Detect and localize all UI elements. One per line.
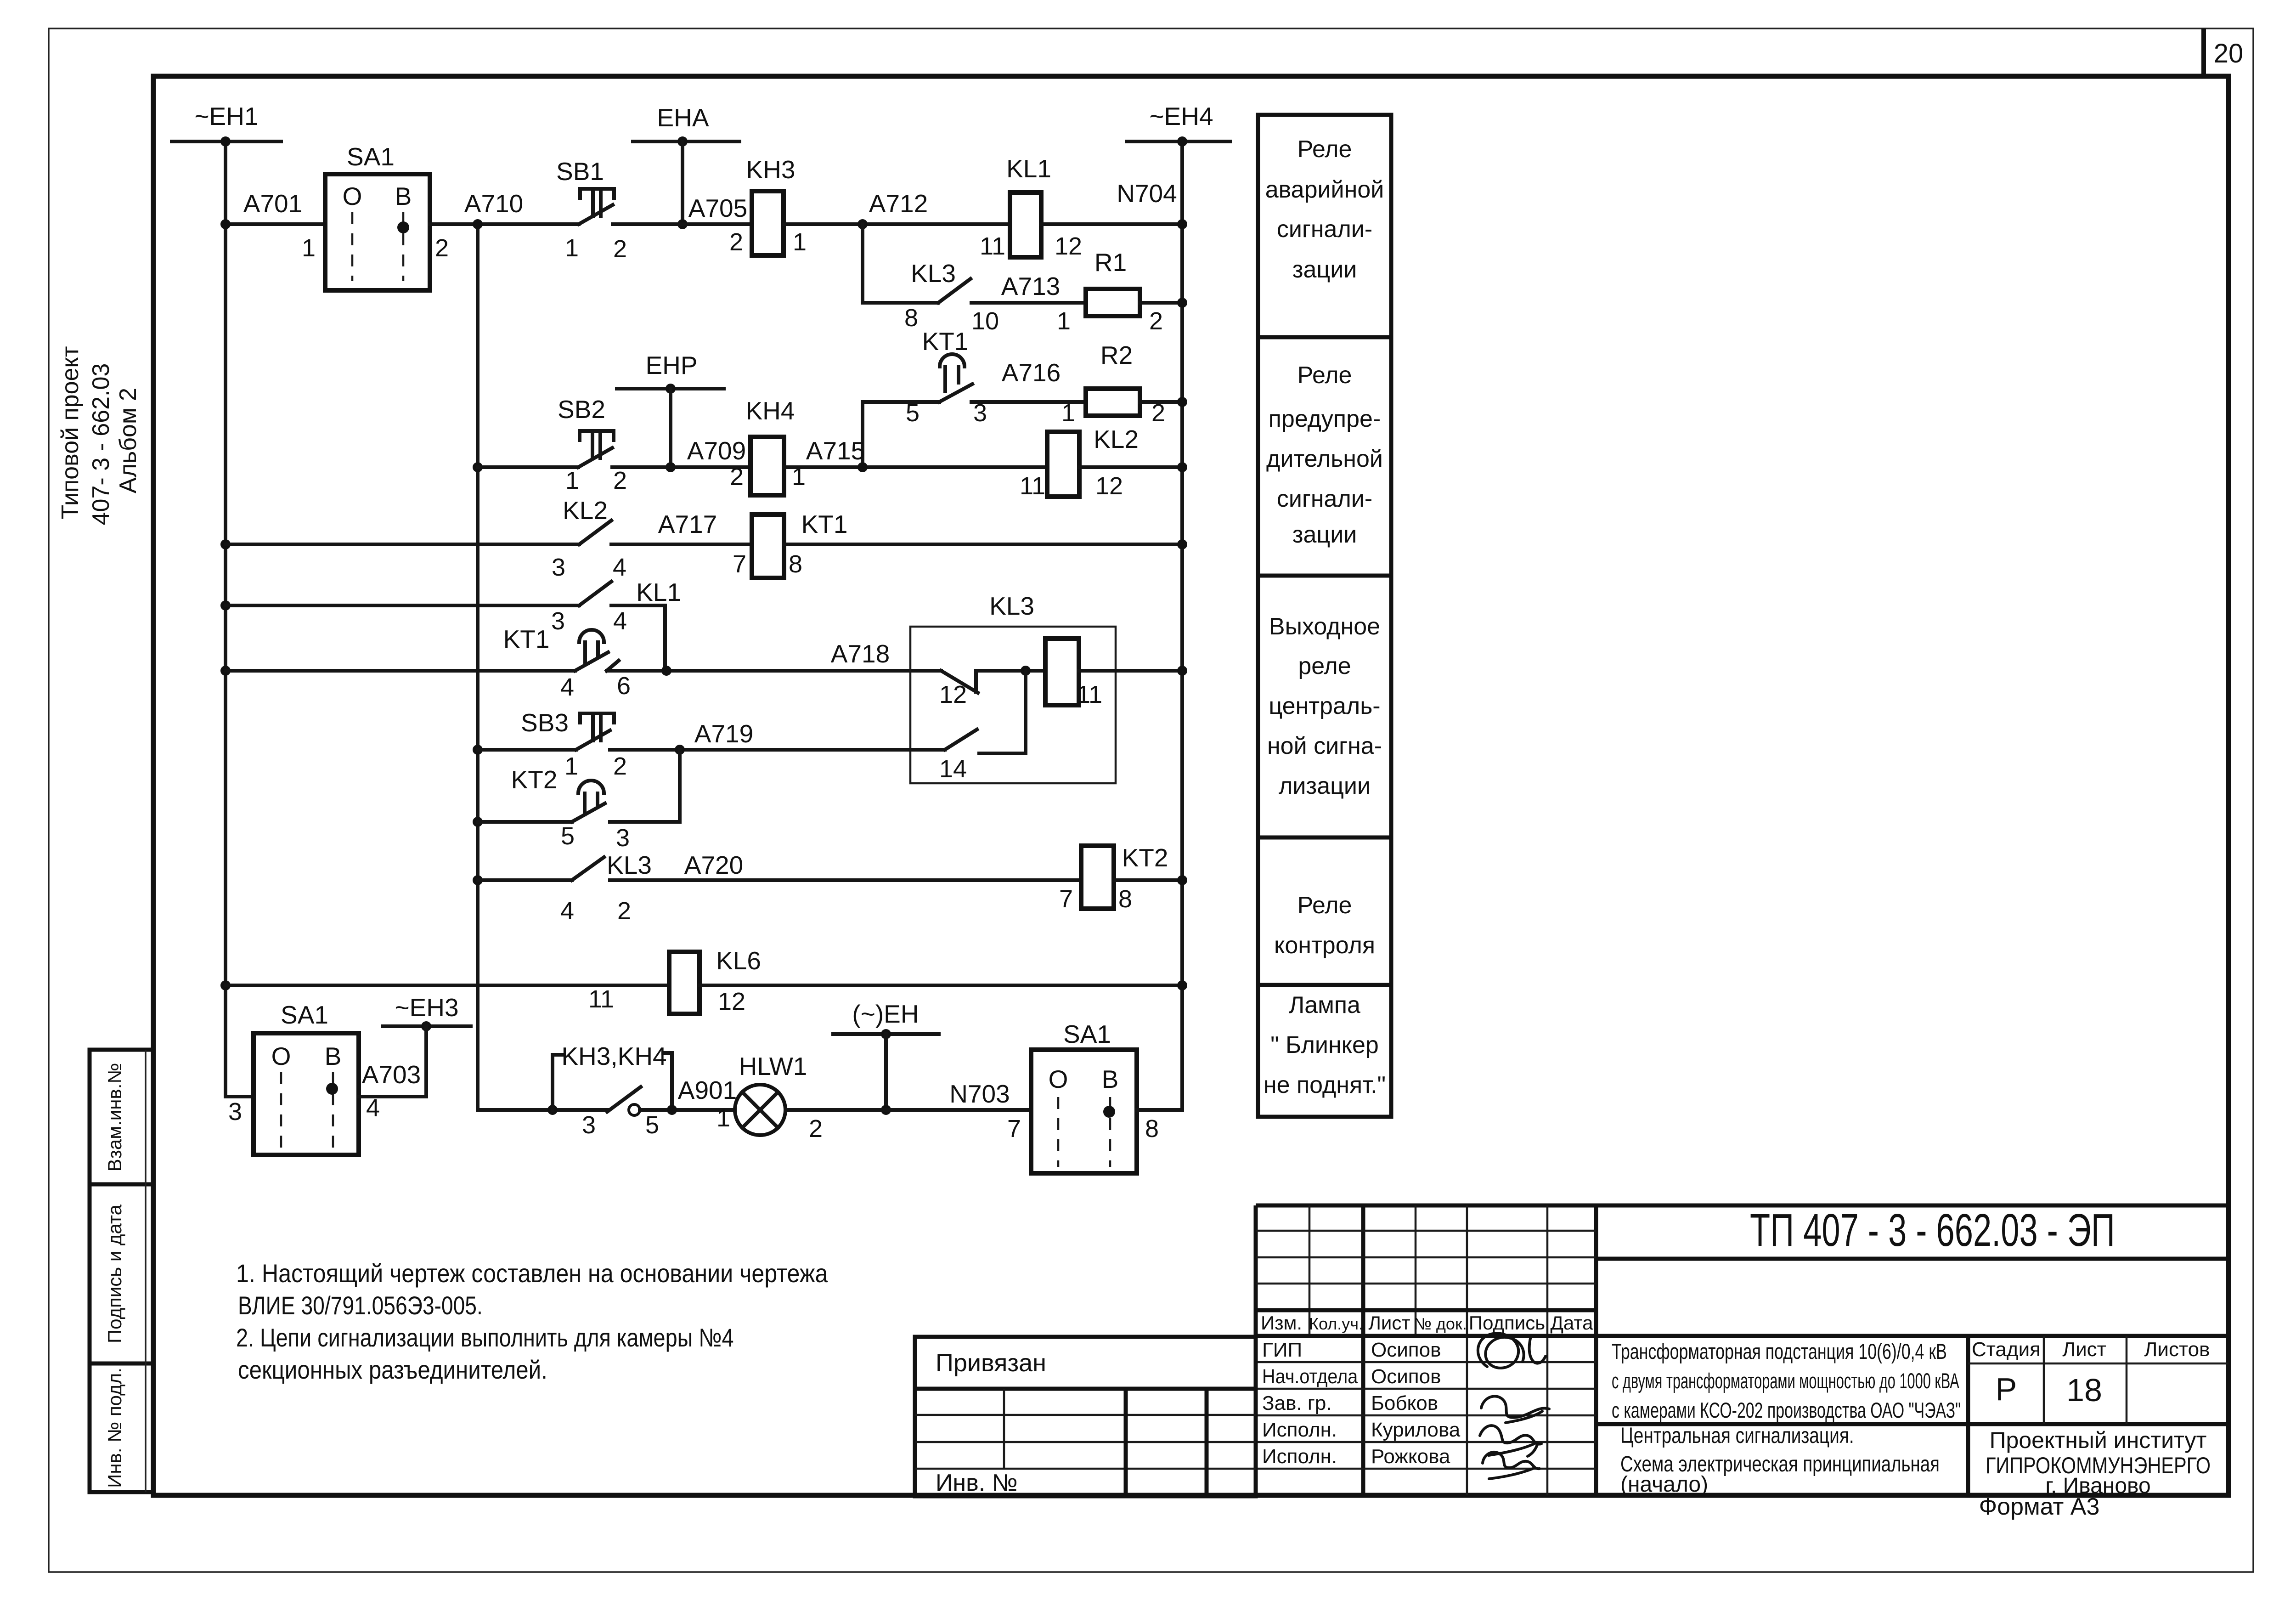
svg-text:1. Настоящий чертеж составлен: 1. Настоящий чертеж составлен на основан…	[236, 1260, 828, 1288]
wire right bus N	[1180, 141, 1184, 1110]
svg-text:11: 11	[1077, 681, 1102, 708]
wire A717	[611, 543, 752, 546]
wire row KL6	[220, 980, 231, 990]
svg-text:12: 12	[1055, 232, 1082, 260]
svg-text:Нач.отдела: Нач.отдела	[1262, 1365, 1358, 1387]
svg-text:с двумя трансформаторами мощно: с двумя трансформаторами мощностью до 10…	[1612, 1369, 1959, 1393]
svg-text:N704: N704	[1117, 179, 1177, 208]
wire N703	[785, 1108, 1031, 1112]
svg-text:№ док.: № док.	[1414, 1314, 1467, 1333]
title block stage cells	[1972, 1338, 2210, 1361]
relay contact KH4	[730, 396, 806, 495]
svg-text:11: 11	[980, 232, 1005, 260]
node ~EH4	[1127, 102, 1230, 147]
title block roles and names	[1262, 1339, 1461, 1468]
wire row SB2	[473, 462, 483, 472]
svg-text:EHA: EHA	[657, 103, 709, 132]
svg-text:О: О	[343, 182, 362, 210]
svg-text:4: 4	[560, 673, 574, 701]
svg-text:2. Цепи сигнализации выполнить: 2. Цепи сигнализации выполнить для камер…	[236, 1323, 734, 1352]
wire A703	[359, 1095, 426, 1098]
svg-text:8: 8	[789, 550, 802, 578]
svg-text:SB3: SB3	[521, 708, 569, 737]
wire lamp row from L2	[478, 1108, 607, 1112]
wire A720	[610, 878, 1081, 882]
svg-text:зации: зации	[1292, 521, 1357, 548]
relay coil KL6	[588, 946, 761, 1015]
svg-text:A703: A703	[362, 1060, 421, 1089]
svg-text:KL3: KL3	[911, 259, 956, 288]
wire A713	[971, 301, 1086, 305]
svg-text:20: 20	[2214, 39, 2244, 68]
svg-text:5: 5	[561, 822, 575, 850]
svg-text:2: 2	[729, 228, 743, 256]
svg-text:4: 4	[613, 554, 626, 581]
wire drop A712 to KL3 contact row	[861, 224, 864, 303]
wire A901	[640, 1108, 735, 1112]
svg-text:KT1: KT1	[801, 510, 848, 538]
svg-text:Стадия: Стадия	[1972, 1338, 2041, 1361]
svg-text:Рожкова: Рожкова	[1371, 1445, 1450, 1468]
node ~EH3	[383, 993, 471, 1097]
wire	[1079, 669, 1182, 673]
relay coil KT1	[733, 510, 847, 578]
switch SA1 bottom left	[228, 1001, 380, 1155]
svg-text:3: 3	[552, 554, 565, 581]
svg-text:(начало): (начало)	[1620, 1472, 1708, 1497]
svg-text:KH4: KH4	[746, 396, 795, 425]
svg-text:5: 5	[906, 399, 920, 427]
wire row A701	[226, 222, 325, 226]
svg-text:О: О	[271, 1042, 291, 1070]
wire	[784, 222, 1010, 226]
svg-text:A710: A710	[464, 189, 523, 218]
svg-text:ТП 407 - 3 - 662.03 - ЭП: ТП 407 - 3 - 662.03 - ЭП	[1750, 1205, 2115, 1256]
wire drop KL1 to KT1 row	[663, 605, 667, 671]
legend box 4 text	[1274, 892, 1375, 959]
svg-text:6: 6	[617, 672, 631, 700]
title block header labels	[1261, 1312, 1593, 1334]
svg-text:A709: A709	[687, 436, 746, 465]
wire	[611, 604, 665, 607]
svg-text:3: 3	[228, 1098, 242, 1126]
svg-text:~EH1: ~EH1	[194, 102, 258, 130]
svg-text:8: 8	[904, 304, 918, 332]
svg-text:Подпись и дата: Подпись и дата	[104, 1204, 125, 1343]
svg-text:~EH3: ~EH3	[395, 993, 458, 1022]
svg-text:SB2: SB2	[558, 395, 605, 424]
svg-text:KL1: KL1	[636, 578, 681, 606]
svg-text:HLW1: HLW1	[739, 1052, 807, 1080]
wire left bus L1	[224, 141, 227, 1097]
node A712	[857, 219, 868, 229]
svg-text:ной сигна-: ной сигна-	[1267, 733, 1382, 759]
wire inner drop to contact 14	[1024, 671, 1027, 753]
legend box 1 text	[1265, 136, 1384, 283]
svg-text:" Блинкер: " Блинкер	[1270, 1032, 1379, 1058]
svg-text:KT2: KT2	[1122, 843, 1168, 872]
wire	[1140, 301, 1182, 305]
relay contact KH3	[729, 155, 807, 256]
svg-text:с камерами КСО-202 производств: с камерами КСО-202 производства ОАО "ЧЭА…	[1612, 1398, 1961, 1423]
svg-text:407- 3 - 662.03: 407- 3 - 662.03	[88, 363, 114, 526]
node A715	[857, 462, 868, 472]
svg-text:SA1: SA1	[281, 1001, 328, 1029]
svg-text:Инв. № подл.: Инв. № подл.	[104, 1368, 125, 1488]
svg-text:N703: N703	[949, 1080, 1010, 1108]
svg-text:KL2: KL2	[1094, 425, 1139, 453]
svg-text:2: 2	[435, 234, 449, 262]
wire	[784, 543, 1182, 546]
pushbutton SB1	[556, 157, 627, 263]
wire	[1114, 878, 1182, 882]
wire second bus L2	[476, 224, 480, 1110]
svg-text:12: 12	[939, 681, 967, 708]
wire	[784, 465, 1047, 469]
svg-text:KT2: KT2	[511, 765, 558, 794]
svg-text:Привязан: Привязан	[936, 1349, 1046, 1377]
svg-text:12: 12	[718, 988, 745, 1015]
svg-text:Формат А3: Формат А3	[1979, 1493, 2100, 1520]
svg-text:Курилова: Курилова	[1371, 1419, 1461, 1441]
svg-text:Р: Р	[1996, 1371, 2017, 1407]
wire	[976, 669, 1045, 673]
svg-text:KL3: KL3	[989, 592, 1034, 620]
relay contact KL1 3-4	[551, 578, 681, 635]
svg-text:2: 2	[613, 235, 627, 263]
svg-text:предупре-: предупре-	[1269, 406, 1381, 432]
svg-text:(~)EH: (~)EH	[852, 1000, 919, 1028]
wire row KL3 contact / A720	[473, 875, 483, 885]
title block sheet name	[1620, 1423, 1940, 1497]
title block grid	[1256, 1205, 2228, 1495]
svg-text:Исполн.: Исполн.	[1262, 1445, 1337, 1468]
resistor R2	[1061, 341, 1165, 427]
wire	[1041, 222, 1182, 226]
wire	[1140, 400, 1182, 404]
svg-text:В: В	[325, 1042, 342, 1070]
lamp HLW1	[735, 1052, 823, 1143]
svg-text:1: 1	[565, 234, 579, 262]
wire A716	[971, 400, 1086, 404]
svg-text:Осипов: Осипов	[1371, 1339, 1441, 1361]
wire	[1079, 465, 1182, 469]
switch SA1 bottom right	[1007, 1020, 1159, 1173]
svg-text:KT1: KT1	[503, 625, 550, 653]
svg-text:секционных разъединителей.: секционных разъединителей.	[238, 1356, 547, 1385]
svg-text:4: 4	[613, 607, 627, 635]
relay coil KL1	[980, 154, 1082, 260]
wire	[612, 465, 750, 469]
svg-text:A718: A718	[831, 639, 890, 668]
svg-text:10: 10	[971, 307, 999, 335]
svg-text:сигнали-: сигнали-	[1277, 486, 1372, 512]
svg-text:централь-: централь-	[1269, 693, 1380, 719]
title block institute	[1986, 1427, 2211, 1498]
wire	[610, 820, 680, 824]
svg-text:2: 2	[617, 897, 631, 925]
time contact KT1 5-3	[863, 327, 987, 427]
time contact KT2 5-3	[511, 765, 630, 852]
svg-text:1: 1	[1057, 307, 1071, 335]
svg-text:2: 2	[809, 1115, 823, 1143]
svg-text:7: 7	[1007, 1115, 1021, 1143]
svg-text:Осипов: Осипов	[1371, 1365, 1441, 1388]
relay coil KL3	[1045, 639, 1102, 708]
svg-text:ВЛИЕ 30/791.056Э3-005.: ВЛИЕ 30/791.056Э3-005.	[238, 1291, 483, 1320]
wire A718	[607, 669, 941, 673]
relay coil KL2	[1020, 425, 1139, 500]
svg-text:5: 5	[645, 1111, 659, 1139]
pushbutton SB3	[521, 708, 627, 780]
svg-text:Проектный институт: Проектный институт	[1990, 1427, 2207, 1453]
svg-text:аварийной: аварийной	[1265, 176, 1384, 203]
svg-text:R1: R1	[1094, 248, 1127, 277]
svg-text:лизации: лизации	[1279, 773, 1371, 799]
legend box 2 text	[1266, 362, 1383, 548]
wire drop KT1 contact to A715	[861, 402, 864, 467]
wire row KT1 contact	[220, 666, 231, 676]
svg-text:11: 11	[588, 985, 614, 1013]
svg-text:~EH4: ~EH4	[1149, 102, 1213, 130]
svg-text:1: 1	[716, 1104, 730, 1132]
svg-text:Зав. гр.: Зав. гр.	[1262, 1392, 1332, 1414]
time contact KT1 4-6	[503, 625, 631, 701]
svg-text:зации: зации	[1292, 256, 1357, 283]
wire to SA1 bottom left	[226, 1095, 254, 1098]
node (~)EH	[833, 1000, 939, 1115]
svg-text:3: 3	[582, 1111, 596, 1139]
contact KL3 14 NO	[939, 730, 977, 783]
svg-text:Листов: Листов	[2144, 1338, 2210, 1361]
pushbutton SB2	[558, 395, 627, 494]
left margin stamp boxes	[90, 1050, 153, 1492]
relay contact KL3 4-2	[560, 851, 652, 925]
svg-text:2: 2	[613, 467, 627, 494]
svg-text:О: О	[1049, 1065, 1068, 1093]
node A710	[473, 219, 483, 229]
wire rise KT2 row to A719	[678, 750, 682, 822]
svg-text:SB1: SB1	[556, 157, 604, 186]
svg-text:дительной: дительной	[1266, 446, 1383, 472]
svg-text:SA1: SA1	[1063, 1020, 1111, 1048]
node ~EH1	[172, 102, 281, 147]
svg-text:KH3: KH3	[746, 155, 795, 184]
svg-text:1: 1	[793, 228, 807, 256]
relay contact KL3 8-10	[863, 259, 999, 335]
svg-text:Кол.уч.: Кол.уч.	[1309, 1314, 1363, 1333]
svg-text:Лист: Лист	[1368, 1312, 1410, 1334]
legend column boxes	[1258, 115, 1391, 1117]
svg-text:реле: реле	[1298, 653, 1351, 679]
title block object description	[1612, 1339, 1961, 1422]
svg-text:8: 8	[1145, 1115, 1159, 1143]
contact KH3,KH4	[553, 1042, 672, 1139]
signature scribble 4	[1483, 1452, 1540, 1479]
svg-text:2: 2	[613, 752, 627, 780]
svg-text:KL1: KL1	[1006, 154, 1051, 183]
svg-text:KL6: KL6	[716, 946, 761, 975]
signature scribble 1	[1478, 1333, 1546, 1368]
wire	[430, 222, 579, 226]
inner thick drawing frame	[153, 76, 2228, 1495]
svg-text:1: 1	[302, 234, 316, 262]
signature scribble 2	[1481, 1396, 1549, 1423]
svg-text:Трансформаторная подстанция 10: Трансформаторная подстанция 10(6)/0,4 кВ	[1612, 1339, 1947, 1363]
svg-text:8: 8	[1118, 885, 1132, 913]
svg-text:18: 18	[2066, 1372, 2102, 1408]
relay contact KL2 3-4	[552, 496, 626, 581]
svg-text:A705: A705	[688, 194, 747, 222]
svg-text:KH3,KH4: KH3,KH4	[561, 1042, 666, 1070]
svg-text:Инв. №: Инв. №	[936, 1470, 1017, 1496]
svg-text:Изм.: Изм.	[1261, 1312, 1302, 1334]
svg-text:Реле: Реле	[1297, 892, 1352, 919]
wire	[700, 984, 1182, 987]
switch SA1 top	[302, 142, 449, 290]
svg-text:1: 1	[1061, 399, 1075, 427]
svg-text:Взам.инв.№: Взам.инв.№	[104, 1063, 125, 1172]
relay KL3 outline box	[910, 627, 1116, 783]
svg-text:14: 14	[939, 755, 967, 783]
svg-text:A715: A715	[806, 436, 865, 465]
svg-text:7: 7	[1059, 885, 1073, 913]
svg-text:Лист: Лист	[2062, 1338, 2106, 1361]
svg-text:ГИП: ГИП	[1262, 1339, 1302, 1361]
resistor R1	[1057, 248, 1163, 335]
notes text	[236, 1260, 828, 1385]
title block doc number	[1750, 1205, 2115, 1256]
svg-text:сигнали-: сигнали-	[1277, 216, 1372, 243]
svg-text:3: 3	[551, 607, 565, 635]
wire row KL2 contact / A717	[220, 539, 231, 549]
relay coil KT2	[1059, 843, 1168, 913]
sheet number cell divider top right	[2201, 28, 2206, 76]
svg-text:EHP: EHP	[645, 351, 697, 379]
svg-text:В: В	[1102, 1065, 1119, 1093]
svg-text:A719: A719	[694, 719, 753, 748]
svg-text:Альбом 2: Альбом 2	[115, 388, 141, 493]
svg-text:A701: A701	[243, 189, 302, 218]
svg-text:Подпись: Подпись	[1469, 1312, 1545, 1334]
svg-text:1: 1	[564, 752, 578, 780]
legend box 3 text	[1267, 613, 1382, 799]
svg-text:1: 1	[565, 467, 579, 494]
wire row SB3 / A719	[473, 745, 483, 755]
contact KL3 12 NC	[939, 671, 978, 708]
svg-text:12: 12	[1095, 472, 1123, 500]
svg-text:3: 3	[616, 824, 630, 852]
wire A719	[610, 748, 945, 752]
svg-text:A901: A901	[678, 1076, 737, 1104]
svg-text:4: 4	[560, 897, 574, 925]
svg-text:11: 11	[1020, 472, 1045, 500]
svg-text:7: 7	[733, 550, 746, 578]
node EHA	[633, 103, 739, 229]
svg-text:Дата: Дата	[1550, 1312, 1593, 1334]
svg-text:KL3: KL3	[607, 851, 652, 879]
svg-text:A717: A717	[658, 510, 717, 538]
legend box 5 text	[1264, 992, 1386, 1098]
svg-text:KT1: KT1	[922, 327, 969, 356]
svg-text:A720: A720	[684, 851, 743, 879]
svg-text:Реле: Реле	[1297, 136, 1352, 163]
signature scribble 3	[1480, 1425, 1541, 1456]
svg-text:Реле: Реле	[1297, 362, 1352, 389]
wire row KL1 contact	[220, 600, 231, 611]
svg-text:Типовой проект: Типовой проект	[57, 346, 84, 519]
svg-text:Центральная сигнализация.: Центральная сигнализация.	[1620, 1423, 1854, 1448]
svg-text:A713: A713	[1001, 272, 1060, 300]
svg-text:не поднят.": не поднят."	[1264, 1072, 1386, 1098]
svg-text:Исполн.: Исполн.	[1262, 1419, 1337, 1441]
node EHP	[617, 351, 724, 472]
svg-text:Лампа: Лампа	[1289, 992, 1360, 1018]
svg-text:В: В	[395, 182, 412, 210]
binding table	[915, 1337, 1256, 1496]
wire	[613, 222, 752, 226]
svg-text:SA1: SA1	[347, 142, 395, 171]
svg-text:KL2: KL2	[563, 496, 608, 525]
svg-text:A716: A716	[1002, 358, 1061, 387]
wire row KT2 contact	[473, 817, 483, 827]
svg-text:R2: R2	[1100, 341, 1133, 369]
svg-text:контроля: контроля	[1274, 932, 1375, 959]
svg-text:Бобков: Бобков	[1371, 1392, 1438, 1414]
wire to right bus	[1137, 1108, 1182, 1112]
svg-text:A712: A712	[869, 189, 928, 218]
svg-text:Выходное: Выходное	[1269, 613, 1380, 640]
svg-text:2: 2	[1149, 307, 1163, 335]
svg-text:2: 2	[730, 463, 744, 491]
